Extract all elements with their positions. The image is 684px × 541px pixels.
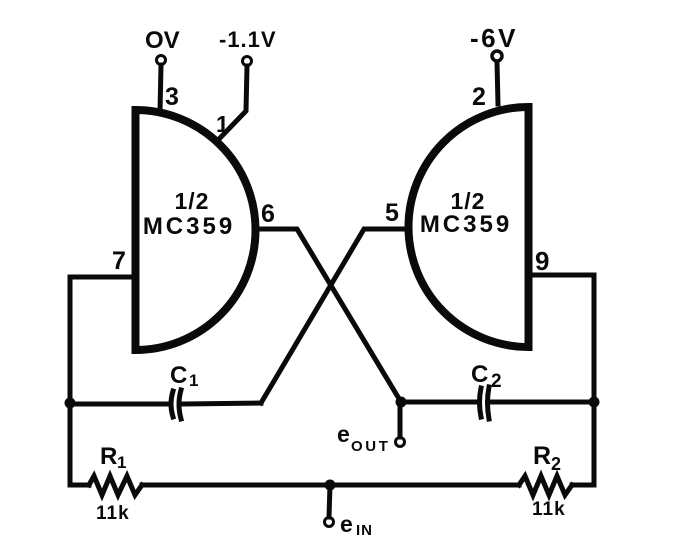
wire left rail node to C1 <box>70 402 168 407</box>
svg-text:7: 7 <box>112 247 126 275</box>
label 0V <box>145 27 180 54</box>
svg-text:-6V: -6V <box>470 23 518 53</box>
gate U2 (1/2 MC359 right half) <box>409 107 529 347</box>
wire -1.1V terminal to pin 1 <box>220 66 247 138</box>
wire bottom rail right segment <box>572 483 594 488</box>
pin 7 label <box>112 247 126 275</box>
junction node right rail / C2 <box>589 397 600 408</box>
wire bottom rail middle segment <box>142 483 519 488</box>
svg-text:1: 1 <box>216 111 229 137</box>
svg-text:MC359: MC359 <box>420 211 512 238</box>
label -1.1V <box>219 27 277 52</box>
capacitor C2 <box>480 387 490 419</box>
wire eOUT node down to terminal <box>398 402 403 437</box>
wire eOUT node to C2 <box>401 400 475 405</box>
label R2 value 11k <box>532 499 566 520</box>
svg-text:IN: IN <box>356 522 373 539</box>
junction node eIN <box>325 480 336 491</box>
svg-text:9: 9 <box>535 246 549 276</box>
svg-text:e: e <box>337 421 350 447</box>
wire -6V terminal to pin 2 <box>497 62 498 104</box>
svg-text:OV: OV <box>145 27 180 54</box>
svg-text:MC359: MC359 <box>143 213 235 240</box>
terminal eIN (open circle) <box>325 518 334 527</box>
svg-text:e: e <box>340 511 353 537</box>
svg-text:11k: 11k <box>532 499 566 520</box>
pin 1 label <box>216 111 229 137</box>
svg-text:1/2: 1/2 <box>175 188 210 214</box>
label C1 <box>170 362 198 390</box>
label R1 <box>100 443 126 472</box>
svg-text:C: C <box>170 362 187 389</box>
wire C2 to right rail <box>492 400 594 405</box>
gate U1 (1/2 MC359 left half) <box>136 110 256 350</box>
svg-text:3: 3 <box>165 83 179 111</box>
svg-text:1: 1 <box>189 371 198 390</box>
label R2 <box>533 442 561 474</box>
svg-text:2: 2 <box>491 371 502 392</box>
wire pin 6 to eOUT node (cross-coupling) <box>254 229 401 402</box>
junction node left rail / C1 <box>65 398 76 409</box>
terminal 0V (open circle) <box>157 56 166 65</box>
capacitor C1 <box>171 390 181 419</box>
pin 9 label <box>535 246 549 276</box>
label R1 value 11k <box>96 503 130 524</box>
wire 0V terminal to pin 3 <box>160 65 161 112</box>
terminal -1.1V (open circle) <box>243 57 252 66</box>
pin 2 label <box>472 83 486 111</box>
wire C1 to pin-5 diagonal <box>184 403 261 404</box>
resistor R1 <box>89 476 142 495</box>
label C2 <box>471 361 502 392</box>
svg-text:2: 2 <box>472 83 486 111</box>
svg-text:-1.1V: -1.1V <box>219 27 277 52</box>
svg-text:6: 6 <box>261 200 275 228</box>
label eIN <box>340 511 373 539</box>
svg-text:R: R <box>100 443 117 470</box>
svg-text:2: 2 <box>551 454 561 474</box>
resistor R2 <box>519 476 572 495</box>
label -6V <box>470 23 518 53</box>
pin 6 label <box>261 200 275 228</box>
terminal eOUT (open circle) <box>396 438 405 447</box>
wire pin 7 to left rail <box>70 277 135 485</box>
svg-text:11k: 11k <box>96 503 130 524</box>
svg-text:C: C <box>471 361 488 388</box>
junction node eOUT <box>396 397 407 408</box>
label U1 value 1/2 MC359 <box>143 188 235 240</box>
svg-text:R: R <box>533 442 551 470</box>
svg-text:1: 1 <box>117 453 126 472</box>
wire bottom rail left segment <box>70 483 89 488</box>
svg-text:5: 5 <box>385 199 399 227</box>
wire eIN node down to terminal <box>329 485 330 517</box>
label U2 value 1/2 MC359 <box>420 188 512 238</box>
wire pin 9 to right rail <box>529 275 594 485</box>
wire pin 5 to C1 right node (cross-coupling) <box>261 229 408 403</box>
terminal -6V (open circle) <box>492 51 502 61</box>
label eOUT <box>337 421 390 455</box>
svg-text:OUT: OUT <box>351 438 390 455</box>
pin 5 label <box>385 199 399 227</box>
pin 3 label <box>165 83 179 111</box>
